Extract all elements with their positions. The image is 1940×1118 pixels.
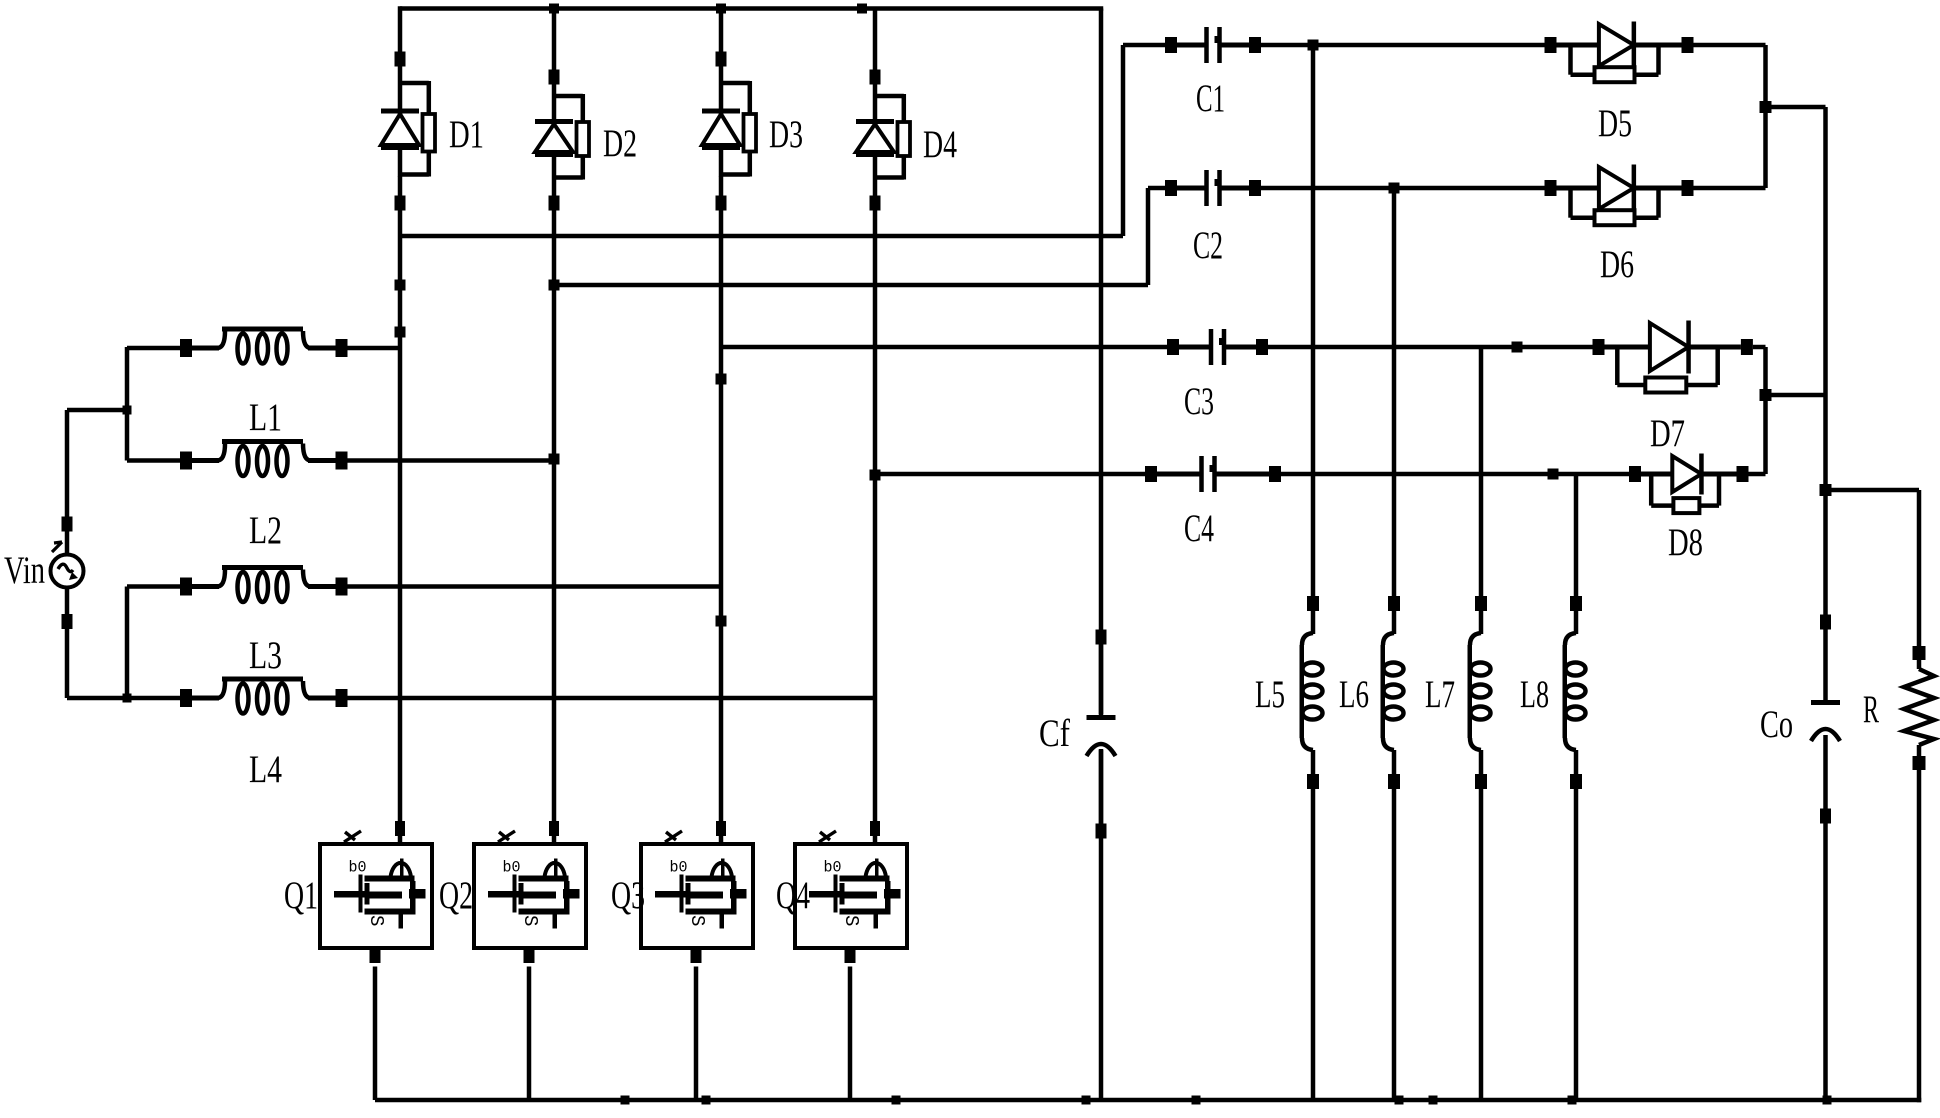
label Q4 <box>776 874 810 917</box>
label D2 <box>603 122 637 165</box>
svg-text:D3: D3 <box>769 113 803 156</box>
label C3 <box>1184 380 1214 423</box>
svg-text:b0: b0 <box>670 859 688 877</box>
diode D8 <box>1629 454 1749 514</box>
label D3 <box>769 113 803 156</box>
wire: L5 column <box>1311 45 1316 1100</box>
svg-text:C1: C1 <box>1196 77 1225 120</box>
wire: C1 row to D5 <box>1261 43 1545 48</box>
svg-text:C4: C4 <box>1184 507 1214 550</box>
wire: D6 output to junction <box>1694 107 1766 188</box>
svg-text:S: S <box>519 915 541 926</box>
diode D6 <box>1545 165 1694 226</box>
label L4 <box>249 748 282 791</box>
label Q2 <box>439 874 473 917</box>
svg-text:Vin: Vin <box>4 549 45 592</box>
junction squares on top bus <box>549 4 867 14</box>
label Q3 <box>611 874 645 917</box>
wire: D7/D8 junction to output column <box>1766 393 1826 398</box>
wire: L6 column <box>1392 188 1397 1100</box>
wire: Co to bottom bus <box>1823 823 1828 1100</box>
transistor Q1 <box>320 821 432 963</box>
inductor L1 <box>180 327 348 364</box>
junction: R branch tap <box>1820 484 1832 496</box>
svg-text:b0: b0 <box>503 859 521 877</box>
label D7 <box>1650 412 1685 455</box>
svg-text:D1: D1 <box>449 113 484 156</box>
label R <box>1863 688 1879 731</box>
junction: D5/D6 outputs <box>1760 101 1772 113</box>
svg-text:C3: C3 <box>1184 380 1214 423</box>
svg-text:S: S <box>686 915 708 926</box>
svg-text:C2: C2 <box>1193 224 1223 267</box>
label L6 <box>1339 673 1369 716</box>
junction: L5 tap on C1 row <box>1308 40 1319 51</box>
wire: R to bottom bus <box>1917 770 1922 1102</box>
wire: bus node A from D1 column to C1 <box>400 45 1165 236</box>
label Q1 <box>284 874 318 917</box>
wire: D7 output to junction <box>1753 347 1766 395</box>
inductor L3 <box>180 565 348 602</box>
label C4 <box>1184 507 1214 550</box>
wire: bus node B from D2 column to C2 <box>554 188 1165 285</box>
label Vin <box>4 549 45 592</box>
wire: Vin positive to L1/L2 inputs <box>67 347 180 517</box>
diode D7 <box>1593 321 1753 393</box>
wire: top bus from D1 column to Cf column <box>400 6 1103 70</box>
wire: D3 column from D3 to Q3 <box>719 210 724 822</box>
wire: Vin negative to L3/L4 inputs <box>67 587 180 699</box>
diode D3 <box>702 52 756 211</box>
label D1 <box>449 113 484 156</box>
junction at (127,410) <box>123 406 132 415</box>
diode D1 <box>381 52 435 211</box>
wire: D1 column from D1 to Q1 <box>398 210 403 822</box>
wire: L7 column <box>1479 347 1484 1100</box>
svg-text:D6: D6 <box>1600 243 1634 286</box>
label D6 <box>1600 243 1634 286</box>
wire: D4 column from D4 to Q4 <box>873 210 878 822</box>
label L5 <box>1255 673 1285 716</box>
wire: node C3 row from D3 column to C3 <box>721 345 1167 350</box>
wire: D2 column from D2 to Q2 <box>552 210 557 822</box>
capacitor C4 <box>1145 456 1281 492</box>
svg-text:L2: L2 <box>249 509 282 552</box>
inductor L2 <box>180 439 348 476</box>
voltage source Vin <box>51 517 84 630</box>
svg-text:S: S <box>840 915 862 926</box>
capacitor C3 <box>1167 329 1268 365</box>
diode D2 <box>535 70 589 211</box>
capacitor C2 <box>1165 170 1261 206</box>
wire: D5 output to junction <box>1694 45 1766 107</box>
transistor Q2 <box>474 821 586 963</box>
wire: Q1 source to bottom bus <box>373 967 378 1101</box>
junction: L6 tap on C2 row <box>1389 183 1400 194</box>
svg-text:b0: b0 <box>349 859 367 877</box>
label C2 <box>1193 224 1223 267</box>
svg-text:L4: L4 <box>249 748 282 791</box>
svg-text:S: S <box>365 915 387 926</box>
junction square on D4 column at C4 tee <box>870 470 881 481</box>
label D8 <box>1668 521 1703 564</box>
wire: node C4 row from D4 column to C4 <box>875 472 1145 477</box>
junction squares on D1 column <box>395 280 406 338</box>
capacitor Cf <box>1087 630 1116 839</box>
svg-text:L3: L3 <box>249 634 282 677</box>
junction square on C4 row <box>1548 469 1559 480</box>
svg-text:D5: D5 <box>1598 102 1632 145</box>
label L7 <box>1425 673 1455 716</box>
wire: Cf column from top bus to bottom bus <box>1099 9 1104 1101</box>
wire: L2 output to D2 column <box>348 458 555 463</box>
label C1 <box>1196 77 1225 120</box>
svg-text:Q1: Q1 <box>284 874 318 917</box>
svg-text:Q4: Q4 <box>776 874 810 917</box>
label D4 <box>923 123 957 166</box>
svg-text:D4: D4 <box>923 123 957 166</box>
transistor Q3 <box>641 821 753 963</box>
capacitor C1 <box>1165 27 1261 63</box>
inductor L8 <box>1563 596 1586 789</box>
svg-text:L1: L1 <box>249 396 282 439</box>
label L2 <box>249 509 282 552</box>
svg-text:D7: D7 <box>1650 412 1685 455</box>
wire: C4 row to D8 <box>1281 472 1629 477</box>
label Co <box>1760 703 1793 746</box>
wire: Q4 source to bottom bus <box>848 967 853 1101</box>
diode D4 <box>856 70 910 211</box>
wire: L3 output to D3 column <box>348 584 722 589</box>
svg-text:D2: D2 <box>603 122 637 165</box>
svg-text:R: R <box>1863 688 1879 731</box>
svg-text:Co: Co <box>1760 703 1793 746</box>
svg-text:Cf: Cf <box>1039 712 1070 755</box>
svg-text:L5: L5 <box>1255 673 1285 716</box>
wire: D5/D6 junction to output column <box>1766 107 1826 624</box>
inductor L6 <box>1381 596 1404 789</box>
wire: bottom bus <box>375 1098 1921 1103</box>
transistor Q4 <box>795 821 907 963</box>
wire: C3 row to D7 <box>1268 345 1593 350</box>
inductor L4 <box>180 677 348 714</box>
label Cf <box>1039 712 1070 755</box>
wire: D8 output to junction <box>1749 395 1766 474</box>
wire: C2 row to D6 <box>1261 186 1545 191</box>
junction squares on D2 column <box>549 280 560 465</box>
wire: Q2 source to bottom bus <box>527 967 532 1101</box>
svg-text:L7: L7 <box>1425 673 1455 716</box>
svg-text:Q3: Q3 <box>611 874 645 917</box>
inductor L7 <box>1468 596 1491 789</box>
svg-text:Q2: Q2 <box>439 874 473 917</box>
junction squares on bottom bus <box>621 1096 1832 1105</box>
label L1 <box>249 396 282 439</box>
label D5 <box>1598 102 1632 145</box>
junction squares on D3 column <box>716 374 727 627</box>
svg-text:L8: L8 <box>1520 673 1549 716</box>
junction at (127,698) <box>123 694 132 703</box>
wire: L1 output to D1 column <box>348 346 401 351</box>
diode D5 <box>1545 22 1694 83</box>
wire: R branch <box>1826 490 1920 646</box>
label L8 <box>1520 673 1549 716</box>
junction: D7/D8 outputs <box>1760 389 1772 401</box>
svg-text:D8: D8 <box>1668 521 1703 564</box>
inductor L5 <box>1300 596 1323 789</box>
capacitor Co <box>1811 615 1840 824</box>
wire: Q3 source to bottom bus <box>694 967 699 1101</box>
svg-text:L6: L6 <box>1339 673 1369 716</box>
junction square on C3 row <box>1512 342 1523 353</box>
label L3 <box>249 634 282 677</box>
resistor R <box>1904 646 1934 770</box>
svg-text:b0: b0 <box>824 859 842 877</box>
wire: L4 output to D4 column <box>348 696 876 701</box>
wire: L8 column <box>1574 474 1579 1100</box>
